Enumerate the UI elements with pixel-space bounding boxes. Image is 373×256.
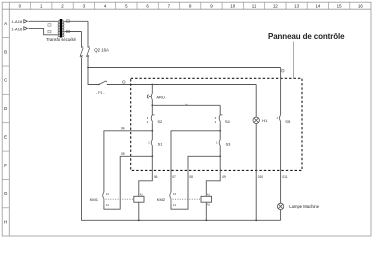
wire left rail upper segment bbox=[81, 32, 83, 48]
svg-text:KM1: KM1 bbox=[90, 197, 99, 202]
transformer T1 core bbox=[60, 19, 63, 38]
wire F1 output across to lamp branch bbox=[107, 84, 256, 86]
svg-text:011: 011 bbox=[282, 175, 287, 179]
wire secondary top to right rail bbox=[64, 20, 88, 22]
svg-text:S3: S3 bbox=[226, 141, 232, 146]
svg-text:15: 15 bbox=[337, 3, 342, 8]
wire S4 to node 07 bbox=[219, 123, 221, 131]
push button S4 bbox=[219, 115, 222, 123]
wire S5 to machine lamp bbox=[280, 123, 282, 203]
svg-text:S2: S2 bbox=[157, 119, 163, 124]
node branch to right chain bbox=[151, 104, 153, 106]
lamp machine bbox=[277, 203, 283, 209]
wire lamp H1 to bottom bus bbox=[255, 124, 257, 221]
contactor KM2 aux contact bbox=[170, 192, 171, 204]
wire machine lamp to bottom bus end bbox=[280, 210, 282, 221]
svg-text:Q2 16A: Q2 16A bbox=[94, 47, 109, 52]
svg-text:04: 04 bbox=[121, 127, 125, 131]
switch F1 bbox=[99, 81, 107, 85]
header column numbers bbox=[19, 3, 364, 8]
row letters bbox=[4, 21, 8, 225]
svg-text:10: 10 bbox=[230, 3, 235, 8]
wire L1 feed to transformer primary top bbox=[29, 20, 58, 22]
wire KM2 coil to bottom bus bbox=[205, 202, 207, 220]
wire N feed to transformer primary bottom bbox=[29, 28, 58, 34]
wire lamp H1 branch drop bbox=[255, 85, 257, 118]
wire bus corner down to S5 bbox=[280, 68, 282, 115]
svg-text:08: 08 bbox=[189, 175, 193, 179]
node bus tap bbox=[87, 67, 89, 69]
contactor KM1 aux contact bbox=[103, 192, 104, 204]
wire ARU to branch node bbox=[151, 99, 153, 105]
breaker Q2 pole 1 bbox=[80, 47, 83, 58]
wire down to S2 bbox=[151, 105, 153, 115]
switch S1 bbox=[151, 140, 152, 146]
svg-text:Panneau de contrôle: Panneau de contrôle bbox=[268, 32, 345, 41]
transformer T1 primary terminal boxes bbox=[48, 24, 51, 33]
svg-text:S5: S5 bbox=[285, 119, 291, 124]
wire KM1 coil to bottom bus bbox=[138, 202, 140, 220]
wire chain exit 09 to KM2 coil bbox=[206, 156, 220, 196]
svg-text:09: 09 bbox=[222, 175, 226, 179]
svg-text:1-A16: 1-A16 bbox=[12, 19, 23, 24]
transformer T1 secondary terminal boxes bbox=[66, 20, 69, 33]
node 07 branch bbox=[219, 130, 221, 132]
transformer T1 primary winding bbox=[58, 21, 59, 37]
control bus wire bbox=[88, 67, 281, 69]
wire S3 to node 08/09 bbox=[219, 146, 221, 157]
svg-text:12: 12 bbox=[273, 3, 278, 8]
node 08 branch bbox=[219, 155, 221, 157]
wire down to S3 bbox=[219, 131, 221, 140]
wire S1 to node 05 bbox=[151, 146, 153, 157]
svg-text:ARU: ARU bbox=[156, 94, 165, 99]
svg-text:H1: H1 bbox=[262, 118, 268, 123]
node 05 branch bbox=[151, 155, 153, 157]
wire bus drop to F1 bbox=[88, 68, 99, 85]
node lamp H1 bus junction bbox=[255, 219, 257, 221]
svg-text:Transfo sécurité: Transfo sécurité bbox=[46, 37, 77, 42]
terminal circle 03 bbox=[123, 81, 126, 84]
transformer T1 secondary winding bbox=[63, 21, 64, 37]
tiny label on branch bbox=[186, 103, 188, 106]
svg-text:07: 07 bbox=[172, 175, 176, 179]
wire branch 05 to KM1 contact bottom bbox=[104, 156, 152, 209]
svg-text:- F1 -: - F1 - bbox=[96, 91, 105, 95]
wire right rail upper segment bbox=[87, 21, 89, 47]
wire branch 07 to KM2 contact bbox=[171, 131, 220, 193]
contactor KM2 coil bbox=[201, 196, 212, 202]
node 04 branch bbox=[151, 130, 153, 132]
contactor KM1 mechanical link bbox=[106, 198, 134, 200]
wire left rail long drop to bottom bus bbox=[82, 58, 281, 221]
lamp H1 bbox=[253, 117, 259, 123]
wire S2 to node 04 bbox=[151, 123, 153, 131]
svg-text:010: 010 bbox=[258, 175, 264, 179]
terminal circle 02 bbox=[282, 69, 285, 72]
svg-text:KM2: KM2 bbox=[157, 197, 166, 202]
svg-text:16: 16 bbox=[358, 3, 363, 8]
panel dashed enclosure bbox=[131, 78, 302, 170]
contactor KM1 coil bbox=[134, 196, 144, 202]
svg-text:F: F bbox=[4, 163, 7, 168]
switch S5 bbox=[280, 115, 281, 123]
emergency stop ARU bbox=[147, 94, 152, 100]
breaker Q2 pole 2 bbox=[87, 47, 90, 58]
svg-text:14: 14 bbox=[315, 3, 320, 8]
svg-text:11: 11 bbox=[252, 3, 257, 8]
panel title pointer line bbox=[293, 42, 295, 79]
svg-text:Lampe Machine: Lampe Machine bbox=[289, 204, 319, 209]
wire chain exit 06 to KM1 coil bbox=[139, 156, 153, 196]
svg-text:E: E bbox=[4, 134, 7, 139]
row letter ticks bbox=[2, 38, 9, 208]
node ARU tap bbox=[151, 84, 153, 86]
wire down to S1 bbox=[151, 131, 153, 140]
svg-text:B: B bbox=[4, 49, 7, 54]
svg-text:S1: S1 bbox=[158, 141, 164, 146]
svg-text:1-A16: 1-A16 bbox=[12, 26, 23, 31]
wire secondary bottom to left rail bbox=[64, 31, 81, 33]
svg-text:S4: S4 bbox=[225, 119, 231, 124]
svg-text:06: 06 bbox=[154, 175, 158, 179]
push button S2 bbox=[151, 115, 154, 123]
svg-text:G: G bbox=[4, 191, 8, 196]
header column ticks bbox=[31, 2, 350, 9]
wire branch 04 to KM1 contact bbox=[104, 131, 152, 193]
svg-text:13: 13 bbox=[294, 3, 299, 8]
svg-text:H: H bbox=[4, 220, 7, 225]
switch S3 bbox=[219, 140, 220, 146]
wire S4 chain drop bbox=[219, 105, 221, 115]
wire down to ARU bbox=[151, 85, 153, 94]
wire branch across to S4 chain bbox=[152, 104, 220, 106]
node KM2 coil bus junction bbox=[205, 219, 207, 221]
wire branch 08 to KM2 contact bottom bbox=[171, 156, 220, 209]
node KM1 coil bus junction bbox=[138, 219, 140, 221]
wire right rail to control bus bbox=[87, 58, 89, 68]
contactor KM2 mechanical link bbox=[173, 198, 201, 200]
svg-text:05: 05 bbox=[121, 152, 125, 156]
